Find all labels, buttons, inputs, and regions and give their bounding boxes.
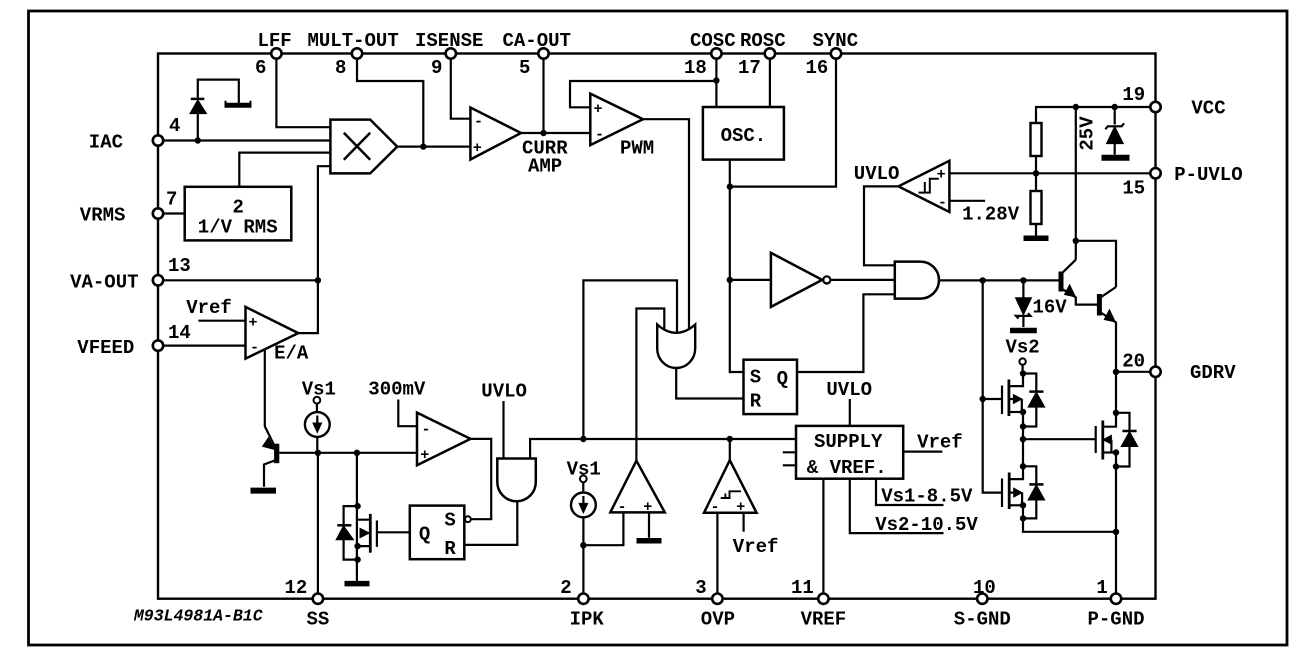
- svg-text:Vref: Vref: [917, 432, 963, 454]
- wire driver supply from VCC: [1075, 107, 1077, 260]
- wire IAC line: [163, 139, 330, 141]
- node divider junction: [1033, 170, 1039, 176]
- wire 1/V2RMS output to multiplier: [239, 153, 330, 187]
- svg-text:2: 2: [560, 577, 571, 599]
- diode M2 body: [1023, 466, 1036, 483]
- wire OR output to latch R: [676, 367, 743, 399]
- svg-text:3: 3: [695, 577, 706, 599]
- svg-text:2: 2: [233, 197, 244, 219]
- wire mid node to M3 gate: [1023, 438, 1096, 440]
- op-amp CURR AMP: [470, 108, 521, 160]
- block OSC box: [703, 107, 784, 160]
- pin 19 VCC: [1150, 102, 1160, 112]
- svg-text:9: 9: [431, 57, 442, 79]
- svg-text:10: 10: [973, 577, 996, 599]
- wire GDRV line: [1116, 371, 1150, 373]
- node IAC-diode junction: [195, 137, 201, 143]
- wire CA-OUT pin5 down: [542, 59, 544, 133]
- wire E/A lower vertex to discharge transistor: [265, 349, 277, 450]
- pin 6 LFF: [271, 48, 281, 58]
- svg-text:P-GND: P-GND: [1088, 609, 1145, 631]
- svg-text:-: -: [422, 422, 431, 439]
- pin 1 P-GND: [1111, 594, 1121, 604]
- svg-text:13: 13: [168, 255, 191, 277]
- gate AND1 (3-input): [895, 262, 939, 299]
- gate NOT (inverter): [771, 253, 822, 307]
- wire latch Q to AND lower input: [797, 294, 895, 372]
- wire rail branch to OR middle input: [583, 280, 677, 439]
- pin 14 VFEED: [153, 340, 163, 350]
- node VA-OUT junction: [315, 277, 321, 283]
- wire COSC pin18 to OSC: [715, 59, 717, 107]
- svg-text:S: S: [750, 366, 761, 388]
- svg-text:SYNC: SYNC: [813, 30, 859, 52]
- svg-text:14: 14: [168, 322, 191, 344]
- wire PWM output down to OR gate: [643, 119, 689, 329]
- svg-text:+: +: [473, 140, 482, 157]
- terminal Vs1 (IPK current source): [580, 475, 587, 482]
- svg-text:Q: Q: [777, 368, 788, 390]
- wire UVLO stub to AND2: [502, 401, 504, 459]
- ground: [345, 581, 370, 587]
- pin 20 GDRV: [1150, 367, 1160, 377]
- svg-text:+: +: [420, 447, 429, 464]
- svg-text:+: +: [736, 499, 745, 516]
- resistor R1: [1031, 123, 1042, 156]
- pin 17 ROSC: [765, 48, 775, 58]
- node comparator rail junction: [580, 436, 586, 442]
- svg-text:& VREF.: & VREF.: [807, 457, 887, 479]
- svg-text:UVLO: UVLO: [854, 163, 900, 185]
- svg-text:M93L4981A-B1C: M93L4981A-B1C: [133, 607, 263, 626]
- wire IPK + to ground: [648, 512, 650, 537]
- node rail/OVP junction: [727, 436, 733, 442]
- wire mid node rail: [1009, 412, 1023, 479]
- svg-text:Vs1-8.5V: Vs1-8.5V: [881, 486, 973, 508]
- diode M3 body: [1116, 413, 1130, 430]
- multiplier X block: [330, 120, 397, 174]
- node driver collector junction: [1073, 238, 1079, 244]
- svg-text:Vs2: Vs2: [1006, 337, 1040, 359]
- svg-text:ROSC: ROSC: [740, 30, 786, 52]
- wire comparator output to latch S: [471, 439, 492, 519]
- wire VFEED to E/A -: [163, 345, 246, 347]
- svg-text:IPK: IPK: [570, 609, 605, 631]
- node 16V clamp junction: [1020, 277, 1026, 283]
- transistor Q2 driver (NPN): [1101, 287, 1116, 297]
- block SR latch 2: [410, 506, 465, 560]
- gate OR (pointing down): [657, 325, 695, 369]
- node MOS drain-diode top junction: [354, 503, 360, 509]
- wire UVLO stub to SUPPLY box: [849, 399, 851, 426]
- svg-text:-: -: [618, 499, 627, 516]
- wire OVP output up to rail: [729, 439, 731, 460]
- svg-text:COSC: COSC: [690, 30, 736, 52]
- pin 2 IPK: [578, 594, 588, 604]
- svg-text:16V: 16V: [1033, 297, 1068, 319]
- hysteresis symbol UVLO: [918, 179, 938, 193]
- node SS rail / MOS junction: [354, 450, 360, 456]
- wire Vs2 output stub: [850, 479, 944, 533]
- svg-text:S: S: [444, 509, 455, 531]
- svg-text:+: +: [594, 101, 603, 118]
- svg-text:SUPPLY: SUPPLY: [814, 431, 883, 453]
- diode clamp on IAC: [198, 80, 239, 141]
- hysteresis symbol OVP: [721, 491, 741, 498]
- node VCC driver junction: [1073, 104, 1079, 110]
- wire multiplier output to CURR AMP +: [397, 146, 470, 148]
- node COSC feedback junction: [713, 77, 719, 83]
- svg-text:-: -: [938, 195, 947, 212]
- wire VA-OUT line: [163, 279, 318, 281]
- svg-text:Q: Q: [419, 523, 430, 545]
- wire AND output to driver: [939, 279, 1061, 281]
- wire AND2 right input from supply rail: [530, 439, 796, 459]
- current source I-SS: [305, 412, 330, 437]
- op-amp UVLO comparator (pointing left): [898, 161, 949, 212]
- pin 12 SS: [313, 594, 323, 604]
- wire R2 to ground: [1035, 224, 1037, 236]
- wire UVLO 1.28V stub: [949, 200, 985, 202]
- IC boundary box: [158, 54, 1156, 599]
- svg-text:8: 8: [335, 57, 346, 79]
- wire CURR AMP out to PWM -: [521, 132, 590, 134]
- wire to Q2 collector: [1076, 241, 1116, 287]
- op-amp E/A error amplifier: [246, 307, 299, 359]
- ground bar for IAC clamp: [225, 103, 252, 108]
- svg-text:-: -: [474, 114, 483, 131]
- svg-text:300mV: 300mV: [368, 379, 426, 401]
- svg-text:-: -: [595, 127, 604, 144]
- wire IPK - input to pin: [583, 512, 623, 545]
- wire OVP - input to pin3: [716, 513, 718, 594]
- latch S input bubble: [465, 516, 471, 522]
- svg-text:17: 17: [738, 57, 761, 79]
- wire NOT input: [730, 279, 771, 281]
- resistor R2: [1031, 191, 1042, 224]
- svg-text:16: 16: [806, 57, 829, 79]
- svg-text:Vs1: Vs1: [567, 459, 601, 481]
- svg-text:25V: 25V: [1077, 116, 1099, 151]
- transistor M2 output MOSFET lower: [1008, 473, 1011, 510]
- wire E/A output: [298, 280, 318, 333]
- wire PWM + feedback to COSC: [570, 81, 716, 107]
- terminal Vs2: [1019, 358, 1025, 364]
- pin 13 VA-OUT: [153, 275, 163, 285]
- svg-text:-: -: [250, 340, 259, 357]
- svg-text:R: R: [444, 538, 456, 560]
- node CA-OUT junction: [540, 130, 546, 136]
- wire SS pin vertical: [317, 453, 319, 594]
- node IPK pin junction: [580, 542, 586, 548]
- pin 5 CA-OUT: [538, 48, 548, 58]
- pin 16 SYNC: [831, 48, 841, 58]
- wire P-UVLO rail: [949, 172, 1150, 174]
- wire ISENSE pin9 to CURR AMP -: [451, 59, 471, 119]
- pin 8 MULT-OUT: [352, 48, 362, 58]
- wire soft-start rail: [279, 452, 417, 454]
- wire SYNC pin16 down-left to OSC output: [730, 59, 836, 187]
- transistor Q soft-start discharge (PNP): [274, 444, 279, 464]
- svg-text:12: 12: [285, 577, 308, 599]
- svg-text:SS: SS: [307, 609, 330, 631]
- wire R1 to P-UVLO rail: [1035, 156, 1037, 191]
- node M1 gate junction: [980, 396, 986, 402]
- ground: [1024, 236, 1049, 242]
- svg-text:VCC: VCC: [1191, 98, 1225, 120]
- wire VCC pin line: [1036, 107, 1150, 123]
- wire OVP + Vref stub: [742, 513, 744, 532]
- svg-text:Vs2-10.5V: Vs2-10.5V: [875, 514, 978, 536]
- transistor M1 output MOSFET upper: [1009, 374, 1023, 387]
- svg-text:P-UVLO: P-UVLO: [1174, 164, 1242, 186]
- wire SS MOS branch vertical: [356, 453, 358, 582]
- wire M2 source to P-GND rail: [1023, 505, 1116, 593]
- svg-text:1/V RMS: 1/V RMS: [198, 217, 278, 239]
- svg-text:Vref: Vref: [733, 536, 779, 558]
- wire VRMS to 1/V2RMS box: [163, 212, 185, 214]
- svg-text:GDRV: GDRV: [1190, 362, 1236, 384]
- op-amp PWM comparator: [590, 94, 643, 146]
- ground: [637, 538, 662, 544]
- svg-text:OVP: OVP: [701, 609, 735, 631]
- diode parallel with SS MOSFET: [344, 506, 358, 559]
- wire AND2 output to latch R: [464, 501, 517, 545]
- wire latch Q to MOS gate: [377, 531, 410, 533]
- pin 7 VRMS: [153, 208, 163, 218]
- pin 10 S-GND: [977, 594, 987, 604]
- node gate-drive junction: [980, 277, 986, 283]
- node GDRV junction: [1113, 369, 1119, 375]
- svg-text:20: 20: [1122, 351, 1145, 373]
- svg-text:18: 18: [684, 57, 707, 79]
- svg-text:R: R: [750, 391, 762, 413]
- diode M1 body: [1023, 374, 1036, 391]
- svg-text:6: 6: [255, 57, 266, 79]
- node MOS source junction: [354, 543, 360, 549]
- op-amp IPK comparator (pointing up): [610, 461, 665, 513]
- wire Vs1 output stub: [876, 479, 944, 505]
- svg-text:S-GND: S-GND: [954, 609, 1011, 631]
- transistor M3 output MOSFET (GDRV): [1103, 372, 1116, 427]
- svg-text:+: +: [643, 499, 652, 516]
- svg-text:Vref: Vref: [186, 297, 232, 319]
- diode 16V zener clamp: [1022, 280, 1024, 297]
- svg-text:IAC: IAC: [89, 132, 123, 154]
- svg-text:ISENSE: ISENSE: [415, 30, 483, 52]
- pin 18 COSC: [711, 48, 721, 58]
- current source I-IPK: [571, 493, 596, 518]
- transistor Q1 driver (NPN): [1062, 260, 1076, 273]
- svg-text:VFEED: VFEED: [77, 337, 134, 359]
- ground: [251, 488, 277, 494]
- op-amp OVP comparator (pointing up): [704, 460, 757, 513]
- svg-text:OSC.: OSC.: [721, 125, 767, 147]
- svg-text:Vs1: Vs1: [302, 379, 336, 401]
- svg-text:VRMS: VRMS: [80, 205, 126, 227]
- svg-text:UVLO: UVLO: [826, 379, 872, 401]
- pin 11 VREF: [818, 594, 828, 604]
- wire VA-OUT up to multiplier lower input: [318, 166, 331, 280]
- svg-text:19: 19: [1122, 84, 1145, 106]
- node VCC zener junction: [1112, 104, 1118, 110]
- node NOT gate input junction: [727, 277, 733, 283]
- block SR latch 1: [744, 360, 798, 414]
- wire Vref stub to E/A +: [198, 320, 245, 322]
- svg-text:1: 1: [1096, 577, 1107, 599]
- svg-text:VREF: VREF: [801, 609, 847, 631]
- wire 300mV reference stub: [398, 400, 417, 427]
- block SUPPLY and VREF: [796, 426, 903, 479]
- svg-text:15: 15: [1122, 178, 1145, 200]
- wire OSC output down: [730, 160, 744, 372]
- node Vs2/M1 drain junction: [1020, 370, 1026, 376]
- svg-text:+: +: [937, 167, 946, 184]
- svg-text:AMP: AMP: [528, 156, 562, 178]
- gate AND2 (pointing down): [497, 459, 536, 502]
- transistor M-SS soft-start MOSFET: [358, 520, 371, 546]
- wire UVLO comparator output to AND upper input: [864, 186, 898, 265]
- node multiplier-out / pin8 junction: [420, 143, 426, 149]
- svg-text:4: 4: [169, 115, 180, 137]
- wire VREF pin line: [822, 479, 824, 594]
- svg-text:7: 7: [166, 189, 177, 211]
- pin 9 ISENSE: [446, 48, 456, 58]
- wire Vref output stub: [903, 451, 942, 453]
- wire IPK comp output to OR left input: [636, 309, 664, 461]
- wire NOT output to AND: [830, 279, 894, 281]
- svg-text:LFF: LFF: [258, 30, 292, 52]
- svg-text:MULT-OUT: MULT-OUT: [308, 30, 399, 52]
- svg-text:+: +: [249, 315, 258, 332]
- svg-text:5: 5: [519, 57, 530, 79]
- svg-text:VA-OUT: VA-OUT: [70, 271, 138, 293]
- block 1/V2RMS box: [185, 187, 292, 241]
- wire LFF pin6 to multiplier: [276, 59, 330, 128]
- pin 4 IAC: [153, 135, 163, 145]
- wire SUPPLY input stubs: [783, 452, 796, 465]
- pin 15 P-UVLO: [1150, 168, 1160, 178]
- svg-text:11: 11: [791, 577, 814, 599]
- wire gate drive rail: [983, 280, 1002, 492]
- node OSC/SYNC junction: [727, 183, 733, 189]
- op-amp 300mV comparator: [417, 413, 471, 466]
- svg-text:PWM: PWM: [620, 138, 654, 160]
- svg-text:CA-OUT: CA-OUT: [503, 30, 571, 52]
- diode 25V zener: [1114, 107, 1116, 125]
- node SS rail / SS pin junction: [315, 450, 321, 456]
- wire ROSC pin17 to OSC: [769, 59, 771, 107]
- ground: [1102, 155, 1130, 161]
- wire M3 source rail down: [1115, 453, 1117, 532]
- svg-text:-: -: [711, 499, 720, 516]
- wire MULT-OUT pin8 to multiplier output: [357, 59, 423, 147]
- ground: [1010, 328, 1037, 334]
- pin 3 OVP: [712, 594, 722, 604]
- node diode bottom junction: [354, 556, 360, 562]
- svg-text:UVLO: UVLO: [481, 381, 527, 403]
- terminal Vs1 (soft start current source): [314, 397, 321, 404]
- svg-text:E/A: E/A: [274, 343, 309, 365]
- svg-text:1.28V: 1.28V: [962, 204, 1020, 226]
